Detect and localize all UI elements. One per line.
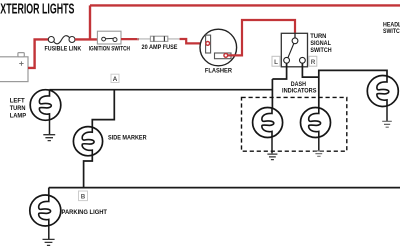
svg-text:FLASHER: FLASHER <box>205 68 233 75</box>
ground parking light <box>43 239 55 245</box>
label DASH INDICATORS <box>282 81 317 95</box>
wire: L terminal to left dash indicator <box>272 63 286 108</box>
fuse 20 amp <box>150 36 167 41</box>
label TURN SIGNAL SWITCH <box>310 33 332 54</box>
svg-text:LEFT: LEFT <box>10 98 25 105</box>
svg-text:IGNITION SWITCH: IGNITION SWITCH <box>89 46 131 53</box>
wire: right dash indicator to ground <box>318 137 320 151</box>
wire: red battery to fusible link <box>28 39 48 68</box>
lamp right turn <box>367 76 398 107</box>
battery <box>0 53 28 82</box>
wire: red top bus from ignition feed to headlight switch <box>90 4 400 6</box>
lamp side marker <box>73 127 102 156</box>
svg-text:TURN: TURN <box>310 33 327 40</box>
label L box <box>272 56 280 66</box>
svg-text:SWITCH: SWITCH <box>310 47 332 54</box>
wire: red fuse to flasher <box>180 39 206 43</box>
svg-text:SWITCH: SWITCH <box>383 28 400 35</box>
ground right turn lamp <box>382 121 392 127</box>
svg-text:B: B <box>81 194 86 201</box>
wire: red ignition switch to fuse <box>121 38 139 40</box>
node A <box>111 74 119 83</box>
svg-text:INDICATORS: INDICATORS <box>282 88 317 95</box>
svg-text:PARKING LIGHT: PARKING LIGHT <box>62 209 108 216</box>
svg-text:TURN: TURN <box>10 105 26 112</box>
svg-text:EXTERIOR LIGHTS: EXTERIOR LIGHTS <box>0 1 75 17</box>
svg-text:FUSIBLE LINK: FUSIBLE LINK <box>45 46 82 53</box>
lamp dash indicator left <box>253 108 283 138</box>
wire: gray fuse leads <box>137 38 181 40</box>
lamp dash indicator right <box>301 108 331 138</box>
turn signal switch <box>281 33 307 67</box>
wire: right turn lamp to ground <box>386 106 388 121</box>
flasher <box>200 29 237 66</box>
wire: main feed A from left turn lamp to dash indicators <box>49 89 272 91</box>
wire: R terminal step <box>302 63 318 77</box>
wire: node B bus <box>49 187 400 189</box>
wire: left turn lamp to ground <box>49 120 51 134</box>
lamp parking light <box>30 195 61 226</box>
wire: branch to side marker <box>92 90 114 128</box>
svg-text:A: A <box>113 76 118 83</box>
wire: red fusible link to ignition switch <box>75 38 97 40</box>
ground right dash indicator <box>314 151 324 156</box>
wire: red flasher to turn signal switch <box>228 20 295 55</box>
ground left dash indicator <box>267 154 277 160</box>
label LEFT TURN LAMP <box>10 98 26 120</box>
wire: side marker down to node B bus <box>84 156 93 188</box>
svg-text:20 AMP FUSE: 20 AMP FUSE <box>142 44 178 51</box>
dash indicators dashed box <box>242 97 347 151</box>
node B <box>79 191 88 201</box>
svg-text:LAMP: LAMP <box>10 113 26 120</box>
fusible link <box>48 36 75 44</box>
label HEADLIGHT SWITCH <box>383 22 400 36</box>
ground left turn lamp <box>43 135 55 141</box>
ignition switch <box>97 31 121 44</box>
svg-text:SIDE MARKER: SIDE MARKER <box>108 134 147 141</box>
wire: drop to parking light <box>48 188 50 196</box>
wire: to right turn lamp and right dash indicator <box>319 70 387 108</box>
label R box <box>309 56 317 66</box>
wire: red vertical drop to ignition feed <box>89 5 91 39</box>
svg-text:R: R <box>311 59 316 66</box>
svg-text:SIGNAL: SIGNAL <box>310 40 331 47</box>
wire: left dash indicator to ground <box>271 137 273 153</box>
svg-text:L: L <box>274 59 278 66</box>
lamp left turn <box>30 90 61 121</box>
wire: parking light to ground <box>48 226 50 239</box>
